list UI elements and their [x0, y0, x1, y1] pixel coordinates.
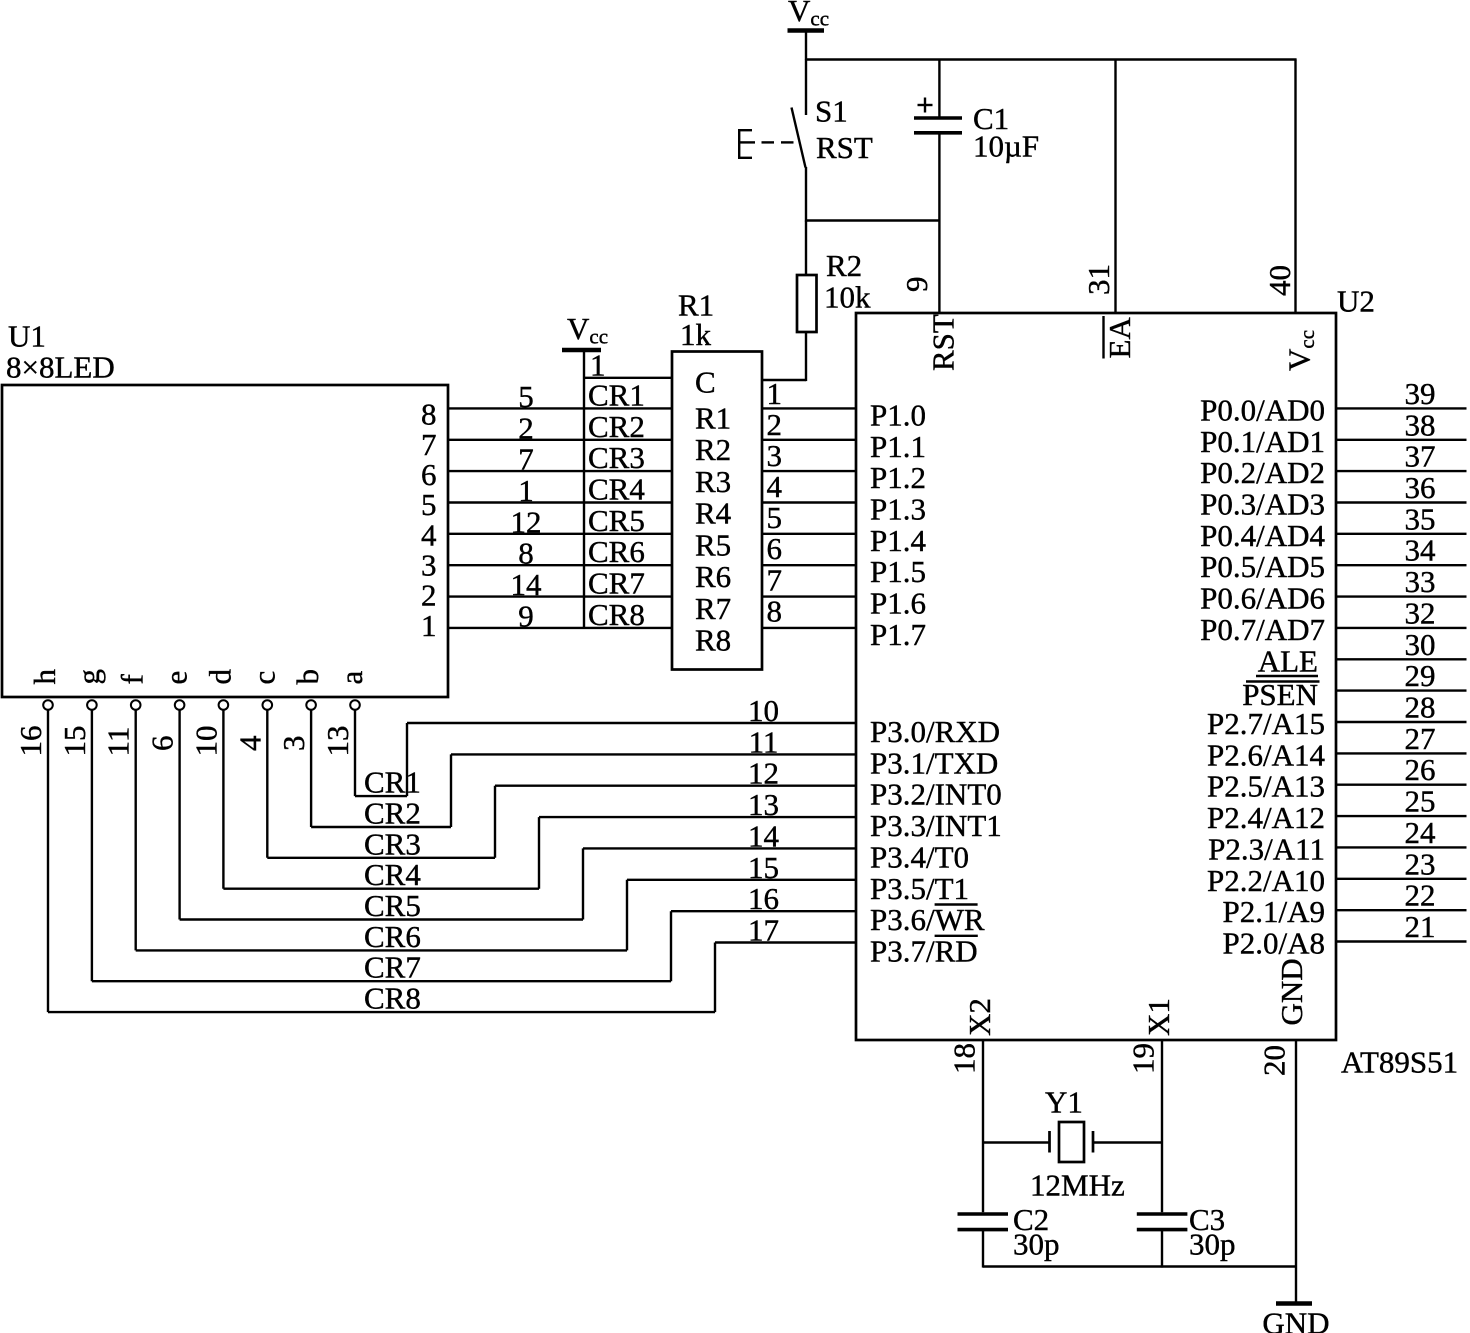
svg-text:P0.6/AD6: P0.6/AD6 [1200, 581, 1325, 616]
svg-text:16: 16 [748, 881, 779, 916]
svg-text:18: 18 [946, 1043, 981, 1074]
svg-text:CR5: CR5 [364, 888, 421, 923]
svg-text:RST: RST [816, 130, 873, 165]
svg-text:P3.4/T0: P3.4/T0 [870, 839, 969, 874]
wire step CR6 to P3.5/T1 [626, 880, 628, 951]
svg-text:32: 32 [1405, 595, 1436, 630]
svg-text:a: a [334, 671, 369, 685]
svg-text:6: 6 [767, 531, 783, 566]
wire R2 to R1 pin1 [762, 379, 806, 381]
svg-text:26: 26 [1405, 752, 1436, 787]
wire C2 lower stem [982, 1231, 984, 1268]
svg-text:P2.5/A13: P2.5/A13 [1207, 769, 1325, 804]
overline WR [935, 903, 978, 905]
wire U1 column h down [47, 710, 49, 1012]
svg-text:8×8LED: 8×8LED [6, 350, 115, 385]
svg-text:8: 8 [767, 593, 783, 628]
wire U2 P3.6/WR row [671, 910, 856, 912]
power symbol Vcc (top) [788, 0, 830, 31]
wire net CR1 horizontal [355, 795, 407, 797]
wire U1 pin 2 to R1 row 7 [448, 595, 672, 597]
wire U2 P3.1/TXD row [451, 753, 856, 755]
svg-text:21: 21 [1405, 909, 1436, 944]
svg-text:29: 29 [1405, 658, 1436, 693]
svg-text:CR6: CR6 [588, 534, 645, 569]
svg-text:c: c [246, 671, 281, 685]
wire U2 pin 22 (P2.1/A9) [1336, 909, 1467, 911]
svg-text:5: 5 [767, 500, 783, 535]
svg-text:R3: R3 [695, 464, 731, 499]
svg-text:ALE: ALE [1258, 643, 1318, 678]
svg-text:37: 37 [1405, 439, 1436, 474]
svg-text:35: 35 [1405, 501, 1436, 536]
svg-text:R6: R6 [695, 559, 731, 594]
svg-text:14: 14 [748, 818, 780, 853]
svg-text:40: 40 [1262, 265, 1297, 296]
svg-text:d: d [202, 669, 237, 685]
wire U1 pin 4 to R1 row 5 [448, 533, 672, 535]
wire Y1 left [983, 1141, 1049, 1143]
wire net CR8 horizontal [48, 1011, 715, 1013]
svg-text:P0.7/AD7: P0.7/AD7 [1200, 612, 1325, 647]
svg-text:24: 24 [1405, 815, 1437, 850]
wire U2 pin 18 X2 upper [982, 1040, 984, 1212]
svg-text:P2.2/A10: P2.2/A10 [1207, 863, 1325, 898]
wire U1 column d down [222, 710, 224, 889]
svg-text:AT89S51: AT89S51 [1341, 1045, 1458, 1080]
svg-text:P1.7: P1.7 [870, 617, 926, 652]
wire U1 column g down [91, 710, 93, 981]
svg-text:b: b [290, 669, 325, 685]
LED matrix U1 box [2, 385, 448, 697]
svg-text:P0.0/AD0: P0.0/AD0 [1200, 392, 1325, 427]
svg-text:17: 17 [748, 913, 779, 948]
svg-text:CR6: CR6 [364, 919, 421, 954]
wire U2 pin 38 (P0.1/AD1) [1336, 439, 1467, 441]
wire U1 pin 3 to R1 row 6 [448, 564, 672, 566]
svg-text:Vcc: Vcc [1282, 330, 1320, 371]
wire U2 pin 34 (P0.5/AD5) [1336, 564, 1467, 566]
svg-text:CR7: CR7 [364, 950, 421, 985]
svg-text:8: 8 [518, 536, 534, 571]
capacitor C3 [1137, 1214, 1188, 1230]
svg-text:5: 5 [518, 379, 534, 414]
svg-text:X2: X2 [962, 998, 997, 1036]
svg-text:2: 2 [518, 410, 534, 445]
wire U2 pin 19 X1 upper [1161, 1040, 1163, 1212]
wire step CR4 to P3.3/INT1 [538, 817, 540, 889]
svg-text:P2.1/A9: P2.1/A9 [1223, 894, 1326, 929]
wire U1 column c down [266, 710, 268, 858]
wire S1 lower stem [805, 167, 807, 222]
wire U2 pin 20 GND [1295, 1040, 1297, 1302]
svg-text:12: 12 [511, 504, 542, 539]
svg-text:16: 16 [13, 726, 48, 757]
svg-text:P0.4/AD4: P0.4/AD4 [1200, 518, 1325, 553]
svg-text:13: 13 [748, 787, 779, 822]
svg-text:3: 3 [276, 736, 311, 752]
svg-text:14: 14 [511, 567, 543, 602]
svg-text:R5: R5 [695, 527, 731, 562]
wire net CR2 horizontal [311, 826, 451, 828]
svg-text:Y1: Y1 [1045, 1085, 1083, 1120]
pin circle a [350, 700, 360, 710]
wire U2 P3.2/INT0 row [495, 785, 856, 787]
svg-text:CR5: CR5 [588, 503, 645, 538]
svg-text:7: 7 [518, 442, 534, 477]
svg-text:13: 13 [320, 726, 355, 757]
wire net CR4 horizontal [223, 888, 539, 890]
svg-text:11: 11 [101, 727, 136, 757]
svg-text:12MHz: 12MHz [1030, 1167, 1125, 1202]
wire U2 pin 23 (P2.2/A10) [1336, 878, 1467, 880]
pin circle c [263, 700, 273, 710]
wire net CR6 horizontal [136, 949, 627, 951]
wire U2 pin 36 (P0.3/AD3) [1336, 501, 1467, 503]
svg-text:CR1: CR1 [364, 765, 421, 800]
svg-text:20: 20 [1256, 1045, 1291, 1076]
svg-text:P0.2/AD2: P0.2/AD2 [1200, 455, 1325, 490]
wire R1 row 3 to U2 P1.2 [762, 470, 856, 472]
svg-text:P0.5/AD5: P0.5/AD5 [1200, 549, 1325, 584]
svg-text:P1.3: P1.3 [870, 492, 926, 527]
svg-text:S1: S1 [815, 94, 848, 129]
wire U2 P3.7/RD row [715, 941, 856, 943]
svg-text:CR4: CR4 [364, 857, 421, 892]
svg-text:h: h [27, 669, 62, 685]
wire R1 row 6 to U2 P1.5 [762, 564, 856, 566]
svg-text:R2: R2 [695, 432, 731, 467]
underline ALE [1256, 675, 1318, 677]
wire C1 upper stem [938, 60, 940, 118]
wire step CR1 to P3.0/RXD [406, 723, 408, 796]
wire U1 pin 1 to R1 row 8 [448, 627, 672, 629]
svg-text:10k: 10k [824, 280, 871, 315]
svg-text:f: f [115, 674, 150, 685]
wire U2 pin 33 (P0.6/AD6) [1336, 595, 1467, 597]
wire U1 pin 6 to R1 row 3 [448, 470, 672, 472]
svg-text:38: 38 [1405, 407, 1436, 442]
pin circle b [306, 700, 316, 710]
svg-text:9: 9 [899, 277, 934, 293]
resistor R2 body [797, 275, 817, 332]
wire R1 row 2 to U2 P1.1 [762, 439, 856, 441]
pin circle h [43, 700, 53, 710]
svg-text:CR3: CR3 [364, 826, 421, 861]
svg-text:10µF: 10µF [973, 129, 1039, 164]
wire R2 upper stem [805, 221, 807, 276]
wire U2 pin 32 (P0.7/AD7) [1336, 627, 1467, 629]
svg-text:P3.7/RD: P3.7/RD [870, 934, 978, 969]
wire top Vcc rail [805, 58, 1297, 60]
wire U1 column a down [354, 710, 356, 796]
wire U2 pin 29 (PSEN) [1336, 689, 1467, 691]
svg-text:R7: R7 [695, 591, 731, 626]
svg-text:P0.1/AD1: P0.1/AD1 [1200, 424, 1325, 459]
svg-text:P2.7/A15: P2.7/A15 [1207, 706, 1325, 741]
switch S1 RST [739, 108, 805, 168]
wire U2 pin 37 (P0.2/AD2) [1336, 470, 1467, 472]
wire R1 row 4 to U2 P1.3 [762, 501, 856, 503]
svg-text:22: 22 [1405, 878, 1436, 913]
svg-text:28: 28 [1405, 690, 1436, 725]
svg-text:CR7: CR7 [588, 566, 645, 601]
wire U1 column e down [178, 710, 180, 920]
wire U1 pin 8 to R1 row 1 [448, 407, 672, 409]
wire R1 row 7 to U2 P1.6 [762, 595, 856, 597]
wire U2 pin 28 (P2.7/A15) [1336, 721, 1467, 723]
resistor network R1 box [672, 352, 762, 670]
svg-text:P3.0/RXD: P3.0/RXD [870, 714, 1000, 749]
svg-text:11: 11 [749, 724, 779, 759]
svg-text:34: 34 [1405, 533, 1437, 568]
svg-text:1: 1 [421, 608, 437, 643]
svg-text:6: 6 [145, 736, 180, 752]
wire step CR3 to P3.2/INT0 [494, 786, 496, 858]
wire step CR5 to P3.4/T0 [582, 848, 584, 919]
svg-text:P3.2/INT0: P3.2/INT0 [870, 777, 1002, 812]
wire U2 P3.0/RXD row [407, 722, 856, 724]
capacitor C1 [914, 118, 962, 133]
svg-text:25: 25 [1405, 784, 1436, 819]
pin circle d [219, 700, 229, 710]
svg-text:X1: X1 [1141, 998, 1176, 1036]
svg-text:39: 39 [1405, 376, 1436, 411]
wire Vcc stem to top rail [805, 32, 807, 60]
svg-text:R2: R2 [826, 248, 862, 283]
svg-text:P2.4/A12: P2.4/A12 [1207, 800, 1325, 835]
svg-text:e: e [159, 671, 194, 685]
svg-text:P3.6/WR: P3.6/WR [870, 902, 985, 937]
wire net CR7 horizontal [92, 980, 671, 982]
wire U1 column f down [134, 710, 136, 951]
wire U2 pin 30 (ALE) [1336, 658, 1467, 660]
svg-text:P1.4: P1.4 [870, 523, 926, 558]
wire Vcc to R1 common pin 1 [584, 377, 672, 379]
wire U2 pin 21 (P2.0/A8) [1336, 940, 1467, 942]
svg-text:g: g [71, 669, 106, 685]
wire U2 pin 25 (P2.4/A12) [1336, 815, 1467, 817]
svg-text:4: 4 [232, 735, 267, 751]
svg-text:CR3: CR3 [588, 440, 645, 475]
svg-text:23: 23 [1405, 846, 1436, 881]
svg-text:CR8: CR8 [364, 981, 421, 1016]
svg-text:30p: 30p [1189, 1227, 1236, 1262]
wire U2 pin 26 (P2.5/A13) [1336, 784, 1467, 786]
svg-text:1k: 1k [680, 317, 712, 352]
capacitor C1 plus sign [918, 98, 933, 113]
wire C1 lower stem / U2 pin 9 RST [938, 135, 940, 314]
svg-text:P2.0/A8: P2.0/A8 [1223, 926, 1326, 961]
svg-text:7: 7 [767, 562, 783, 597]
svg-text:19: 19 [1126, 1043, 1161, 1074]
svg-text:10: 10 [188, 726, 223, 757]
svg-text:P2.3/A11: P2.3/A11 [1208, 831, 1325, 866]
wire U1 column b down [310, 710, 312, 827]
overline PSEN [1246, 680, 1320, 682]
svg-text:P1.5: P1.5 [870, 554, 926, 589]
svg-text:U2: U2 [1337, 284, 1375, 319]
svg-text:P0.3/AD3: P0.3/AD3 [1200, 487, 1325, 522]
svg-text:P1.2: P1.2 [870, 460, 926, 495]
svg-text:4: 4 [767, 469, 783, 504]
pin circle g [87, 700, 97, 710]
svg-text:CR4: CR4 [588, 472, 645, 507]
svg-text:15: 15 [57, 726, 92, 757]
crystal Y1 [1050, 1122, 1094, 1162]
wire R2 lower stem [805, 332, 807, 381]
svg-text:P3.5/T1: P3.5/T1 [870, 871, 969, 906]
svg-text:P1.1: P1.1 [870, 429, 926, 464]
svg-text:2: 2 [767, 407, 783, 442]
svg-text:1: 1 [518, 473, 534, 508]
svg-text:CR2: CR2 [364, 796, 421, 831]
wire step CR7 to P3.6/WR [670, 911, 672, 981]
svg-text:Vcc: Vcc [788, 0, 829, 31]
svg-text:P3.3/INT1: P3.3/INT1 [870, 808, 1002, 843]
ground symbol GND [1262, 1304, 1329, 1333]
wire step CR8 to P3.7/RD [714, 943, 716, 1013]
svg-text:P2.6/A14: P2.6/A14 [1207, 737, 1325, 772]
wire U2 P3.4/T0 row [583, 847, 856, 849]
svg-text:36: 36 [1405, 470, 1436, 505]
wire U1 pin 5 to R1 row 4 [448, 501, 672, 503]
svg-text:GND: GND [1274, 958, 1309, 1025]
svg-text:P1.0: P1.0 [870, 397, 926, 432]
svg-text:P3.1/TXD: P3.1/TXD [870, 745, 998, 780]
svg-text:P1.6: P1.6 [870, 586, 926, 621]
svg-text:30p: 30p [1013, 1227, 1060, 1262]
wire C3 lower stem [1161, 1231, 1163, 1268]
svg-text:31: 31 [1081, 264, 1116, 295]
svg-text:RST: RST [925, 314, 960, 371]
svg-text:CR8: CR8 [588, 597, 645, 632]
wire U2 P3.5/T1 row [627, 879, 856, 881]
svg-text:30: 30 [1405, 627, 1436, 662]
overline RD [935, 935, 978, 937]
svg-text:33: 33 [1405, 564, 1436, 599]
wire bottom ground rail [983, 1265, 1296, 1267]
svg-text:U1: U1 [8, 319, 46, 354]
wire S1 to C1 node [806, 219, 939, 221]
svg-text:15: 15 [748, 850, 779, 885]
svg-text:EA: EA [1102, 317, 1137, 359]
svg-text:CR1: CR1 [588, 377, 645, 412]
svg-text:R8: R8 [695, 623, 731, 658]
wire U2 pin 40 Vcc [1294, 60, 1296, 314]
wire U2 pin 35 (P0.4/AD4) [1336, 533, 1467, 535]
svg-text:Vcc: Vcc [567, 311, 608, 349]
wire R1 row 1 to U2 P1.0 [762, 407, 856, 409]
microcontroller U2 box [856, 313, 1336, 1040]
wire S1 upper stem [805, 60, 807, 116]
wire Vcc bus vertical [583, 352, 585, 628]
svg-text:27: 27 [1405, 721, 1436, 756]
wire U2 pin 24 (P2.3/A11) [1336, 846, 1467, 848]
overline EA [1102, 316, 1104, 359]
wire U2 pin 39 (P0.0/AD0) [1336, 407, 1467, 409]
svg-text:10: 10 [748, 693, 779, 728]
svg-text:1: 1 [590, 348, 606, 383]
svg-text:GND: GND [1262, 1306, 1329, 1333]
wire U2 P3.3/INT1 row [539, 816, 856, 818]
wire U1 pin 7 to R1 row 2 [448, 439, 672, 441]
wire U2 pin 31 EA [1114, 60, 1116, 314]
pin circle f [131, 700, 141, 710]
svg-text:R1: R1 [695, 400, 731, 435]
power symbol Vcc (left) [562, 311, 608, 350]
svg-text:3: 3 [767, 438, 783, 473]
capacitor C2 [958, 1214, 1009, 1230]
svg-text:12: 12 [748, 756, 779, 791]
wire Y1 right [1094, 1141, 1162, 1143]
wire R1 row 5 to U2 P1.4 [762, 533, 856, 535]
svg-text:1: 1 [767, 376, 783, 411]
wire R1 row 8 to U2 P1.7 [762, 627, 856, 629]
wire net CR3 horizontal [267, 857, 495, 859]
svg-text:R4: R4 [695, 496, 732, 531]
wire step CR2 to P3.1/TXD [450, 754, 452, 827]
svg-text:9: 9 [518, 598, 534, 633]
pin circle e [175, 700, 185, 710]
svg-text:CR2: CR2 [588, 409, 645, 444]
wire U2 pin 27 (P2.6/A14) [1336, 752, 1467, 754]
wire net CR5 horizontal [180, 918, 583, 920]
svg-text:C: C [695, 365, 716, 400]
